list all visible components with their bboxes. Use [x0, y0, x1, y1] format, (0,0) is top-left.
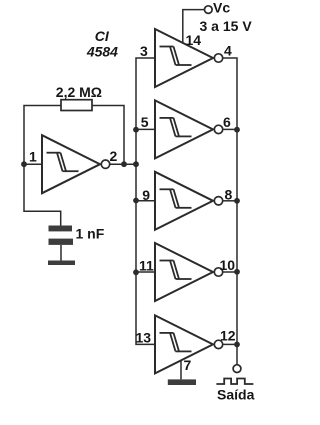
svg-text:Vc: Vc	[213, 0, 230, 16]
svg-text:1 nF: 1 nF	[76, 226, 105, 242]
svg-text:7: 7	[184, 357, 192, 373]
svg-text:3 a 15 V: 3 a 15 V	[200, 18, 253, 34]
svg-text:CI: CI	[95, 28, 110, 44]
svg-text:13: 13	[136, 330, 152, 346]
svg-text:6: 6	[223, 114, 231, 130]
svg-text:5: 5	[141, 114, 149, 130]
svg-text:12: 12	[220, 327, 236, 343]
svg-text:9: 9	[142, 187, 150, 203]
svg-text:4: 4	[224, 42, 232, 58]
svg-text:10: 10	[220, 257, 236, 273]
svg-text:4584: 4584	[86, 43, 118, 59]
svg-text:11: 11	[139, 258, 154, 274]
svg-text:2,2 MΩ: 2,2 MΩ	[56, 84, 102, 100]
svg-text:2: 2	[110, 148, 118, 164]
svg-text:8: 8	[225, 186, 233, 202]
svg-text:3: 3	[140, 43, 148, 59]
svg-text:Saída: Saída	[217, 387, 255, 403]
svg-text:1: 1	[29, 149, 37, 165]
svg-text:14: 14	[186, 32, 202, 48]
